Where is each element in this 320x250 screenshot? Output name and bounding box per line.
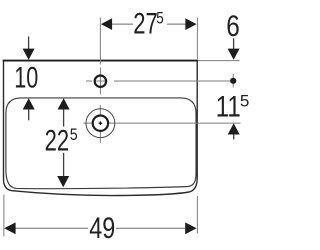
svg-text:11: 11 xyxy=(216,90,241,123)
centerline: tap-hole horizontal line to dot terminator xyxy=(114,80,236,82)
dimension 11.5 up arrowhead xyxy=(228,123,240,134)
dimension 49 left arrowhead xyxy=(4,222,15,234)
extension line: left edge down to dimension 49 xyxy=(3,195,5,237)
svg-text:5: 5 xyxy=(70,126,78,144)
tap hole circle xyxy=(95,76,106,87)
dimension 27.5 left arrowhead xyxy=(101,18,112,30)
drain outer circle xyxy=(86,109,115,138)
extension line: top edge extended right for dimension 6 xyxy=(198,60,240,62)
inner bowl rim contour xyxy=(6,98,196,189)
dimension 10 up arrowhead xyxy=(23,98,35,109)
extension line: tap-hole vertical centerline up to dimension 27.5 xyxy=(99,18,101,65)
svg-text:22: 22 xyxy=(45,125,70,158)
centerline: tap-hole horizontal cross segment xyxy=(94,80,107,82)
dimension 27.5 line right segment xyxy=(167,23,186,25)
dimension 49 line left segment xyxy=(15,227,88,229)
dimension 27.5 right arrowhead xyxy=(185,18,196,30)
dimension 49 line right segment xyxy=(116,227,186,229)
dimension 22.5 upper line segment xyxy=(63,110,65,127)
svg-text:6: 6 xyxy=(226,10,240,43)
dimension 10 lower arrow tail xyxy=(28,110,30,121)
dimension 11.5 arrow tail xyxy=(233,135,235,140)
washbasin outer contour (sides and curved front edge) xyxy=(4,60,198,196)
dimension 27.5 line left segment xyxy=(111,23,133,25)
centerline: tap-hole horizontal left dash xyxy=(86,80,92,82)
dot terminator on tap-hole centerline xyxy=(230,78,236,84)
dimension 6 down arrowhead xyxy=(228,49,240,60)
dimension 10 upper arrow tail xyxy=(28,36,30,49)
drain inner circle xyxy=(93,116,108,131)
dimension 22.5 down arrowhead xyxy=(57,176,69,187)
svg-text:5: 5 xyxy=(240,92,250,110)
svg-text:27: 27 xyxy=(133,7,158,40)
washbasin top (back) edge xyxy=(3,60,198,62)
tick through dot terminator xyxy=(232,74,234,88)
dimension 49 right arrowhead xyxy=(185,222,196,234)
svg-text:10: 10 xyxy=(14,62,38,95)
dimension 22.5 up arrowhead xyxy=(58,98,70,109)
dimension 6 arrow tail xyxy=(233,38,235,49)
centerline: drain vertical cross segment xyxy=(99,105,101,143)
extension line: right edge up to dimension 27.5 xyxy=(196,18,198,60)
svg-text:5: 5 xyxy=(156,10,164,28)
extension line: right edge down to dimension 49 xyxy=(196,196,198,234)
dimension 10 down arrowhead xyxy=(23,49,35,60)
drain center mark xyxy=(99,121,103,125)
svg-text:49: 49 xyxy=(89,212,115,245)
dimension 22.5 lower line segment xyxy=(63,153,65,176)
centerline: tap-hole vertical cross segment xyxy=(99,68,101,95)
centerline: drain horizontal line to dimension 11.5 xyxy=(83,122,240,124)
